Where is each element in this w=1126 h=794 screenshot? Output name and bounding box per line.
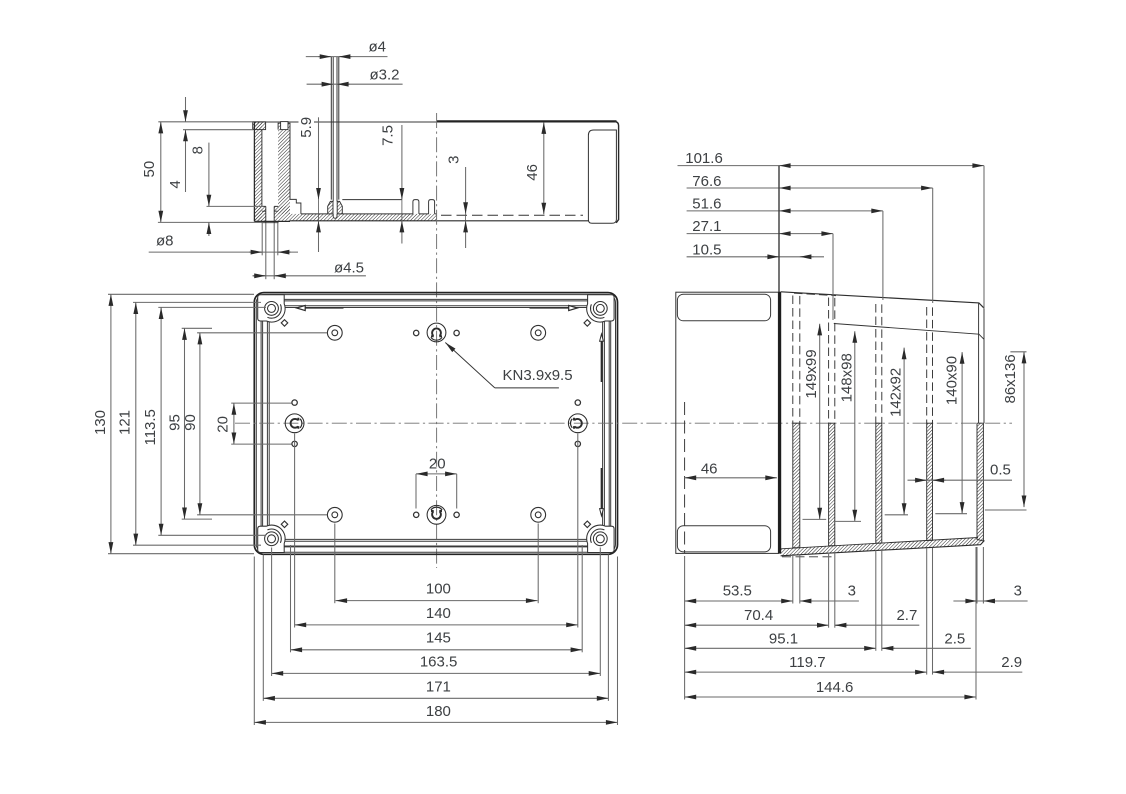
wall 1 hidden dashed (793, 296, 800, 424)
screw boss middle-left (285, 414, 304, 433)
svg-text:3: 3 (445, 156, 462, 164)
svg-text:8: 8 (189, 146, 206, 154)
dimension o3.2 (307, 66, 403, 84)
svg-text:171: 171 (426, 679, 451, 696)
dimension 3 right wall (953, 600, 1027, 602)
svg-text:121: 121 (116, 410, 133, 435)
svg-text:101.6: 101.6 (685, 150, 723, 167)
svg-text:140: 140 (426, 605, 451, 622)
wire left wall outer face (253, 122, 255, 222)
dimension 46 depth (524, 122, 544, 214)
wall 3 hidden dashed (876, 304, 882, 423)
dimension 144.6 (685, 696, 976, 698)
dimension 27.1 (687, 234, 833, 320)
wire counterbore shoulder (262, 206, 278, 211)
wall 2 hidden dashed (829, 298, 835, 424)
wire floor boundary outer (267, 306, 604, 542)
dimension 8 counterbore depth (189, 143, 263, 236)
dimension 2.7 (835, 624, 920, 626)
svg-text:4: 4 (167, 180, 184, 188)
svg-text:100: 100 (426, 581, 451, 598)
dimension 20 bottom-center (416, 474, 457, 509)
rib 1 on floor (413, 200, 419, 214)
dimension 148x98 (834, 331, 861, 521)
wire floor step near boss (290, 199, 301, 214)
wire base right wall upper lines (979, 303, 984, 423)
svg-text:149x99: 149x99 (803, 349, 820, 398)
dimension 95 (182, 328, 212, 519)
wire boss top shelf line to 7.5 dim (342, 199, 402, 201)
svg-text:10.5: 10.5 (692, 241, 721, 258)
screw boss top-center (427, 323, 446, 342)
wall 4 hidden dashed (927, 307, 933, 423)
dimension 95.1 (685, 647, 876, 649)
dimension 90 (197, 333, 327, 515)
wire parting line thick (778, 292, 781, 554)
reference line for top dims (778, 166, 780, 292)
wire hidden lid edge dashed below floor (782, 556, 836, 558)
dimension o4 (306, 38, 388, 56)
dimension 121 (133, 302, 261, 545)
dimension 100 (336, 600, 538, 602)
dimension 51.6 (687, 211, 883, 300)
svg-text:144.6: 144.6 (816, 679, 854, 696)
svg-text:50: 50 (141, 161, 158, 178)
extension lines from bosses down to bottom dims (254, 434, 617, 726)
wire plan outer edge inner offset (256, 295, 615, 553)
wall 1 hatched (793, 423, 800, 548)
right wall hatched (977, 423, 983, 541)
hatch floor plate (290, 214, 437, 221)
slide arrow right-upper (filled head) (600, 334, 604, 382)
boss plain top-right (531, 325, 546, 340)
dimension 5.9 (298, 115, 319, 253)
svg-text:ø3.2: ø3.2 (370, 66, 400, 83)
corner pad top-left (258, 295, 288, 326)
dimension 4 flange (167, 97, 253, 192)
svg-text:148x98: 148x98 (838, 353, 855, 402)
dimension 171 (263, 697, 608, 699)
wire lid rim line 2 (263, 301, 610, 546)
dimension 180 (254, 721, 617, 723)
corner pad top-right (584, 295, 614, 326)
dimension 3 floor thickness (445, 156, 465, 248)
wire base floor bottom line (781, 541, 985, 556)
wire plan outer edge (254, 293, 617, 555)
dimension 2.5 (882, 647, 971, 649)
dimension 0.5 (908, 479, 1013, 481)
wire top edge of section (left thin part) (254, 121, 438, 123)
boss plain bottom-left (327, 507, 342, 522)
dimension 145 (291, 649, 583, 651)
dimension 113.5 (158, 307, 266, 535)
wire pin hole with round bottom (333, 214, 337, 218)
centerline vertical through pin and plan view (436, 113, 438, 568)
wall 2 hatched (829, 423, 835, 546)
hatch base floor (781, 538, 985, 556)
boss plain bottom-right (531, 507, 546, 522)
svg-text:0.5: 0.5 (990, 461, 1011, 478)
svg-text:ø4.5: ø4.5 (334, 260, 364, 277)
svg-text:95.1: 95.1 (769, 630, 798, 647)
wire right inner corner pillar outline (588, 130, 616, 223)
hatch boss bottom right (274, 206, 290, 221)
screw boss bottom-center (427, 505, 446, 524)
wire left wall inner face (261, 130, 263, 207)
centerline horizontal main (235, 422, 1012, 424)
svg-text:130: 130 (92, 410, 109, 435)
svg-text:46: 46 (701, 460, 718, 477)
corner pad bottom-left (258, 521, 288, 552)
rib 2 on floor (429, 200, 435, 214)
svg-text:KN3.9x9.5: KN3.9x9.5 (503, 367, 573, 384)
dimension 130 (108, 294, 254, 553)
dimension 53.5 (685, 600, 793, 602)
dimension o4.5 screw hole (253, 223, 366, 279)
slide arrow top-right (open head) (530, 305, 578, 310)
wire lid top band (677, 294, 770, 321)
dimension 140 (295, 624, 578, 626)
wire floor boundary inner (269, 308, 602, 540)
hatch pin boss right (337, 201, 342, 214)
wall 4 hatched (927, 423, 933, 540)
wire base top sloped edge (781, 292, 984, 309)
svg-text:7.5: 7.5 (380, 125, 397, 146)
wall 3 hatched (876, 423, 882, 543)
dimension 142x92 (885, 348, 908, 515)
svg-text:163.5: 163.5 (420, 654, 458, 671)
wire boss right column outline (278, 123, 290, 199)
dimension 101.6 (678, 166, 985, 309)
svg-text:20: 20 (429, 456, 446, 473)
dimension 70.4 (685, 624, 829, 626)
dimension 3 wall1 (800, 600, 859, 602)
svg-text:ø8: ø8 (156, 232, 174, 249)
wire floor hidden dashed line (441, 214, 583, 216)
dimension 46 lid depth (685, 477, 777, 479)
svg-text:51.6: 51.6 (692, 196, 721, 213)
hatch boss bottom left (254, 206, 265, 221)
svg-text:20: 20 (214, 416, 231, 433)
dimension 163.5 (272, 672, 601, 674)
boss plain top-left (327, 325, 342, 340)
wire pin rod outer lines o4 (331, 57, 339, 200)
screw boss middle-right (568, 414, 587, 433)
wire right outer edge of box (615, 122, 619, 223)
wire boss top notch (281, 122, 288, 130)
dimension 119.7 (685, 671, 927, 673)
svg-text:46: 46 (524, 164, 541, 181)
wire top edge thick right part (437, 120, 617, 122)
svg-text:70.4: 70.4 (744, 607, 773, 624)
slide arrow top-left (open head) (297, 305, 344, 310)
svg-text:2.7: 2.7 (896, 607, 917, 624)
wire base top hidden dashed segment (794, 293, 836, 295)
dimension 7.5 (380, 123, 402, 244)
hatch boss right column (278, 123, 290, 214)
svg-text:53.5: 53.5 (723, 583, 752, 600)
small hole dots around bosses (292, 330, 581, 517)
svg-text:180: 180 (426, 703, 451, 720)
leader KN3.9x9.5 (445, 343, 572, 388)
svg-text:3: 3 (848, 583, 856, 600)
wire base inner top sloped edge (834, 324, 984, 340)
svg-text:2.5: 2.5 (944, 630, 965, 647)
wire boss bottom edge (254, 220, 290, 222)
svg-text:3: 3 (1014, 583, 1022, 600)
svg-text:5.9: 5.9 (298, 117, 315, 138)
extension lines from walls to bottom dims (685, 547, 984, 700)
dimension o8 counterbore (149, 223, 298, 255)
svg-text:ø4: ø4 (369, 38, 387, 55)
wire screw hole walls (o4.5) (266, 206, 274, 222)
dimension 86x136 (985, 352, 1027, 510)
wire pin rod inner lines o3.2 (333, 57, 337, 202)
svg-text:76.6: 76.6 (692, 173, 721, 190)
wire lid rim line 1 (261, 299, 611, 547)
slide arrow right-lower (filled head) (600, 468, 604, 516)
wire boss foot (262, 221, 278, 222)
hatch wall top cap (253, 122, 266, 130)
svg-text:145: 145 (426, 630, 451, 647)
wire lid outline (676, 292, 779, 553)
dimension 76.6 (687, 188, 933, 303)
hatch left outer wall (254, 122, 262, 221)
dimension 2.9 (933, 671, 1023, 673)
hatch pin boss left (328, 201, 333, 214)
dimension 10.5 (687, 256, 824, 258)
svg-text:2.9: 2.9 (1001, 654, 1022, 671)
svg-text:27.1: 27.1 (692, 218, 721, 235)
svg-text:113.5: 113.5 (142, 409, 159, 445)
svg-text:140x90: 140x90 (943, 356, 960, 405)
svg-text:86x136: 86x136 (1002, 354, 1019, 403)
dimension 149x99 (803, 324, 827, 520)
wire base floor top line (781, 538, 978, 549)
dimension 20 left (231, 403, 291, 444)
wire lid hidden inner face dashed (684, 402, 686, 553)
svg-text:119.7: 119.7 (789, 654, 825, 671)
svg-text:142x92: 142x92 (888, 368, 905, 417)
dimension 140x90 (935, 352, 967, 514)
corner pad bottom-right (584, 521, 614, 552)
wire lid bottom band (677, 526, 770, 552)
wire floor bottom line (290, 220, 588, 222)
wire floor top line (301, 213, 437, 215)
dimension 50 overall height (141, 122, 264, 223)
svg-text:90: 90 (182, 414, 199, 431)
